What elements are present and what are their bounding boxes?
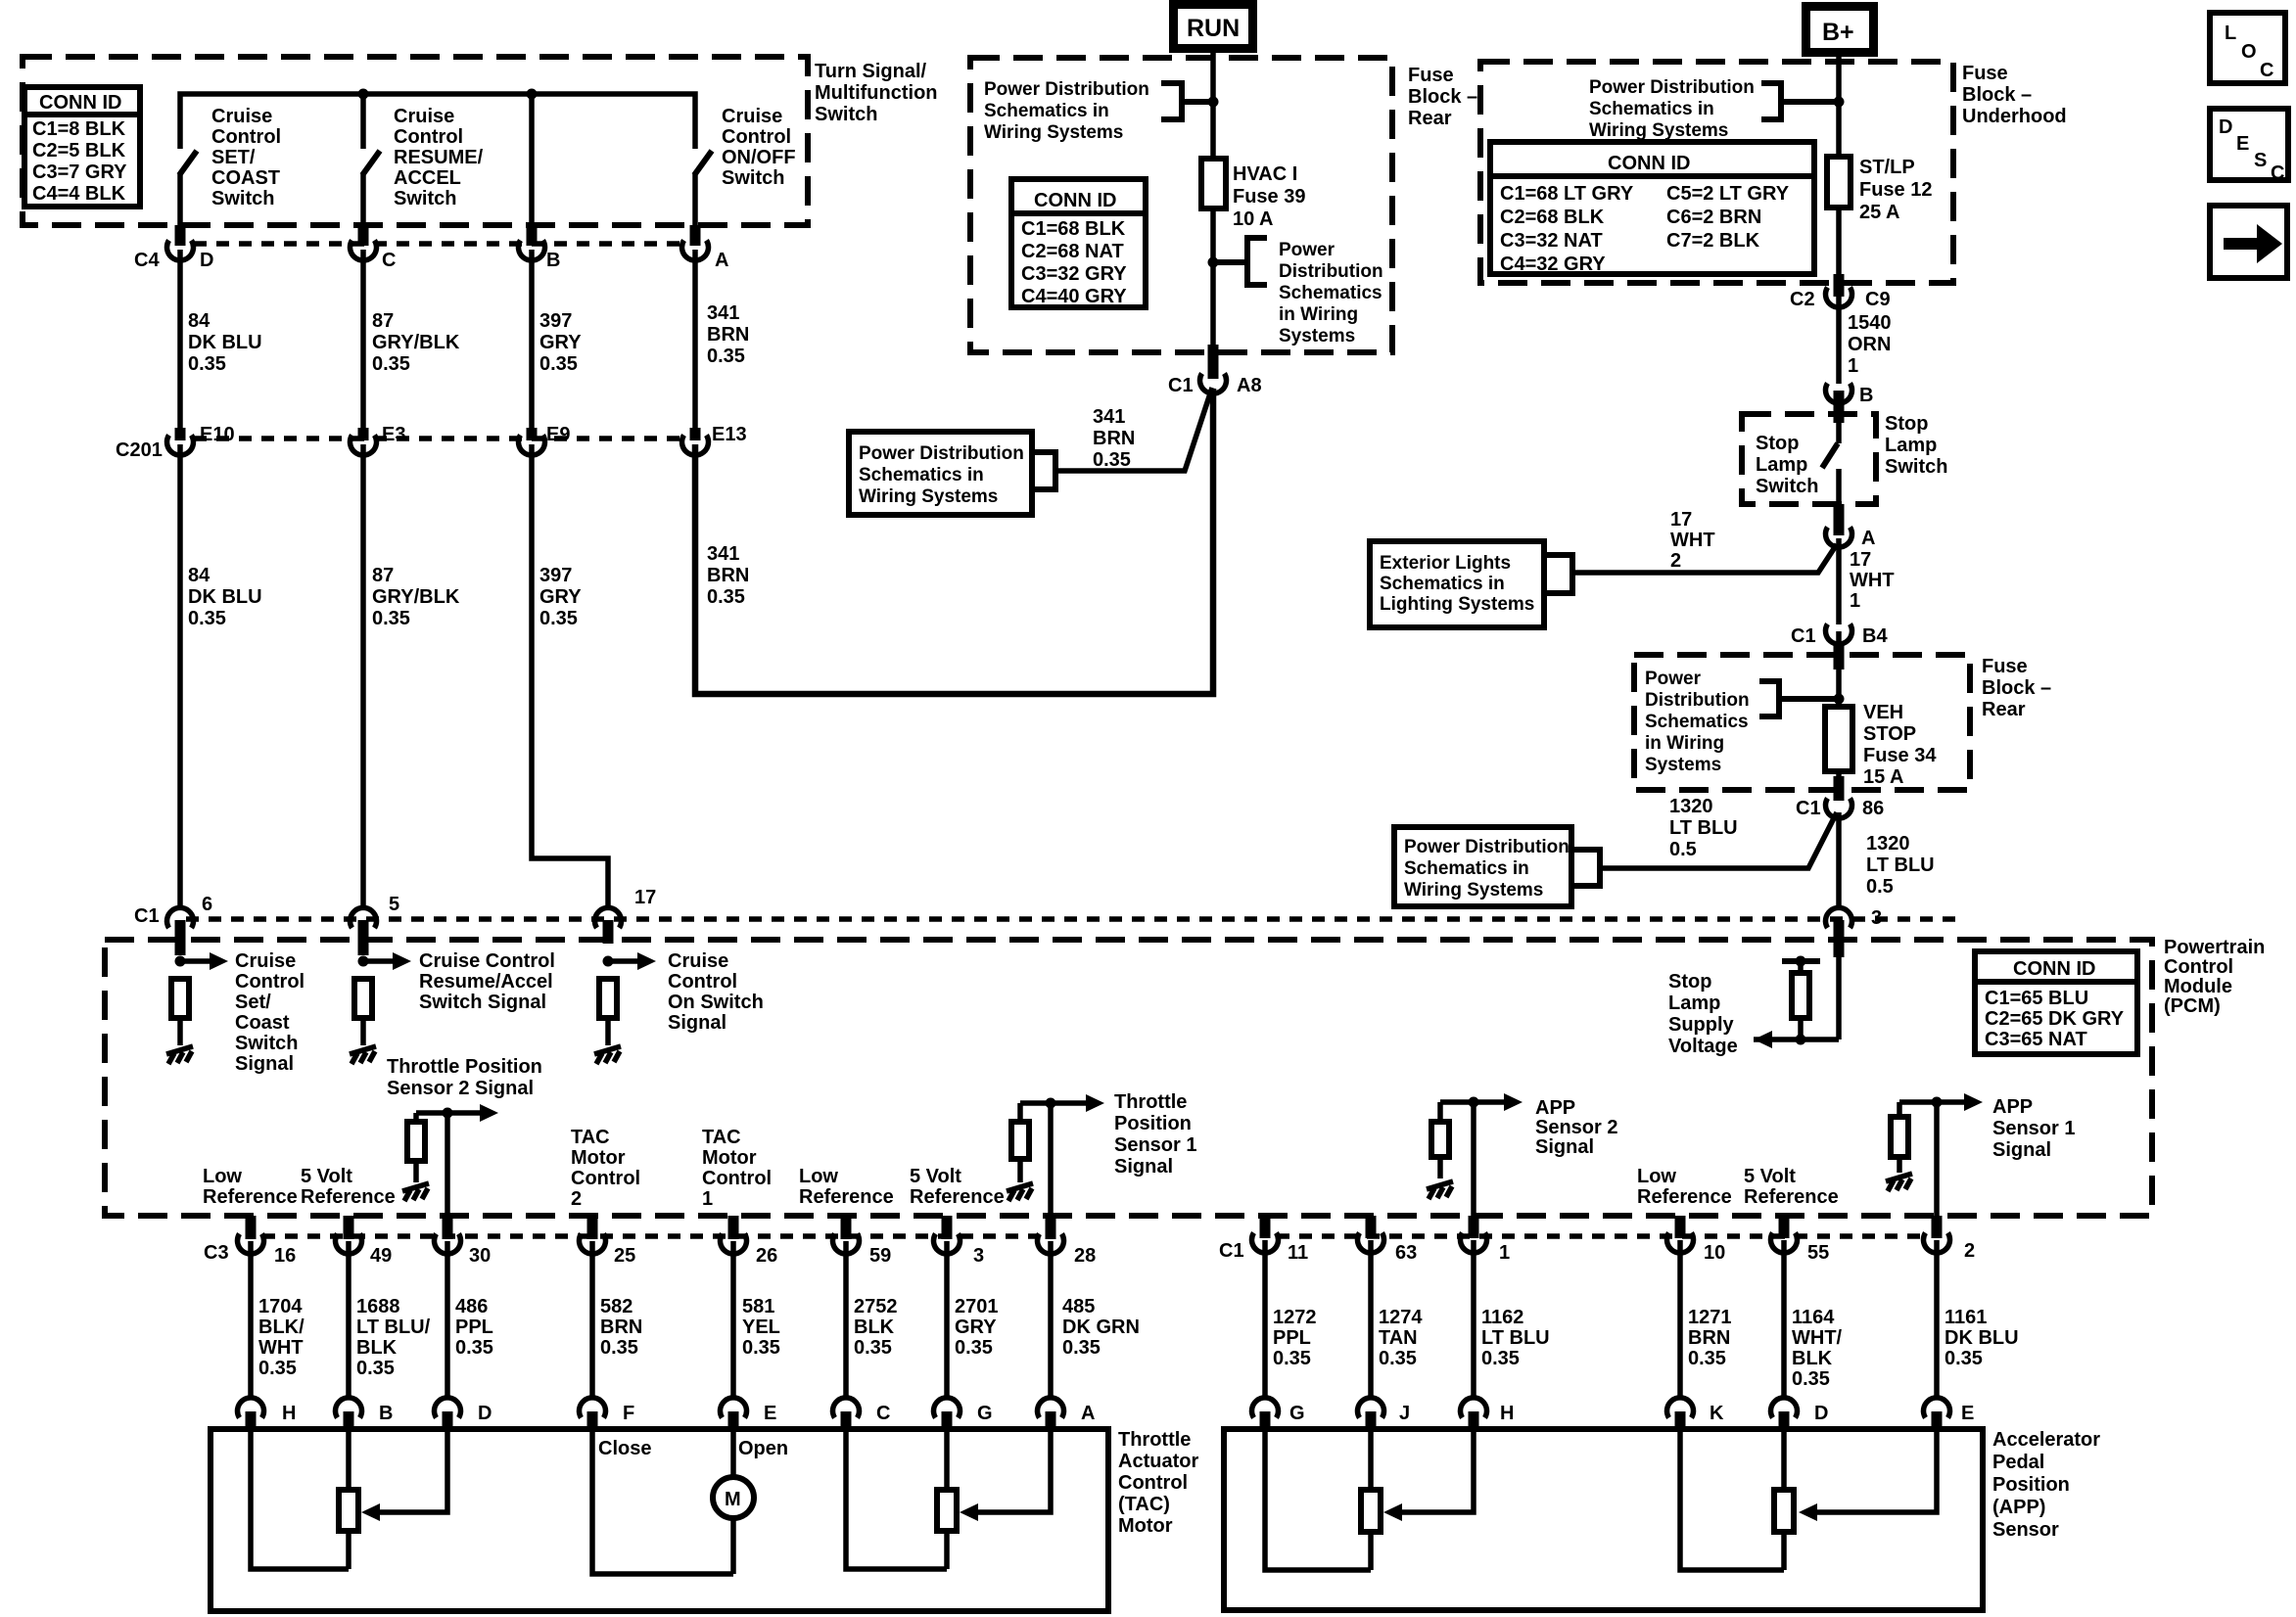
- svg-text:RUN: RUN: [1187, 15, 1240, 42]
- svg-text:D: D: [2219, 116, 2232, 138]
- svg-text:C: C: [2271, 162, 2284, 184]
- svg-text:C201: C201: [116, 439, 163, 461]
- exterior lights schematics box: [1370, 541, 1572, 627]
- wire pin K return loop: [1680, 1429, 1784, 1570]
- motor M1 TAC: [713, 1477, 754, 1518]
- connector C201 pin E9: [519, 424, 571, 455]
- svg-text:VEHSTOPFuse 3415 A: VEHSTOPFuse 3415 A: [1863, 702, 1937, 788]
- powertrain control module dashed box: [105, 937, 2265, 1216]
- svg-text:C1: C1: [1168, 375, 1194, 396]
- svg-text:F: F: [623, 1403, 634, 1424]
- svg-text:C1=8 BLKC2=5 BLKC3=7 GRYC4=4 B: C1=8 BLKC2=5 BLKC3=7 GRYC4=4 BLK: [32, 118, 127, 205]
- svg-text:M: M: [725, 1489, 741, 1510]
- cruise control resume/accel switch signal circuit: [350, 950, 555, 1064]
- connector C1 pin 55: [1771, 1216, 1830, 1264]
- signal arrow resume/accel: [363, 958, 395, 964]
- cruise control on switch signal circuit: [594, 950, 764, 1064]
- svg-text:1271BRN0.35: 1271BRN0.35: [1688, 1307, 1732, 1369]
- svg-text:Cruise ControlResume/AccelSwit: Cruise ControlResume/AccelSwitch Signal: [419, 950, 555, 1013]
- svg-text:Power DistributionSchematics i: Power DistributionSchematics inWiring Sy…: [984, 79, 1149, 143]
- signal arrow TP sensor 1: [1020, 1100, 1088, 1106]
- APP sensor connector pin J: [1358, 1398, 1411, 1431]
- wire RUN to HVAC fuse: [1210, 53, 1216, 159]
- ground G6: [1427, 1181, 1453, 1199]
- wire 87 GRY/BLK upper: [363, 250, 460, 429]
- svg-text:C5=2 LT GRYC6=2 BRNC7=2 BLK: C5=2 LT GRYC6=2 BRNC7=2 BLK: [1666, 183, 1790, 252]
- svg-text:CruiseControlOn SwitchSignal: CruiseControlOn SwitchSignal: [668, 950, 764, 1034]
- svg-text:A: A: [1861, 528, 1875, 549]
- svg-text:B+: B+: [1822, 19, 1854, 46]
- fuse VEH STOP Fuse 34 15 A: [1825, 702, 1937, 788]
- connector C3 pin 26: [720, 1216, 777, 1267]
- connector C1 B4: [1791, 624, 1888, 648]
- svg-text:E: E: [2236, 133, 2249, 155]
- signal arrow APP sensor 1: [1899, 1099, 1966, 1105]
- wire pin3 into PCM: [1836, 957, 1842, 1039]
- svg-text:H: H: [282, 1403, 296, 1424]
- svg-text:CONN ID: CONN ID: [2013, 958, 2095, 980]
- svg-text:1320LT BLU0.5: 1320LT BLU0.5: [1669, 796, 1738, 860]
- wire junction to resistor: [413, 1113, 419, 1122]
- svg-text:28: 28: [1074, 1245, 1096, 1267]
- resistor R4 stop lamp supply: [1792, 973, 1809, 1018]
- node pin30 junction: [443, 1108, 453, 1119]
- svg-text:C4: C4: [134, 250, 160, 271]
- svg-text:D: D: [200, 250, 213, 271]
- svg-text:B: B: [546, 250, 560, 271]
- svg-text:CONN ID: CONN ID: [39, 92, 121, 114]
- svg-text:O: O: [2241, 41, 2257, 63]
- svg-text:1540ORN1: 1540ORN1: [1848, 312, 1892, 377]
- svg-text:C1: C1: [1219, 1240, 1244, 1262]
- connector C201 row dashed line: [194, 436, 685, 441]
- connector C4 pin C: [351, 225, 397, 271]
- wire 1540 ORN 1: [1839, 297, 1892, 384]
- wire pin D to pot: [1781, 1429, 1787, 1490]
- svg-text:APPSensor 1Signal: APPSensor 1Signal: [1992, 1096, 2075, 1161]
- wire pin E wiper: [1813, 1429, 1937, 1512]
- wire branch col2: [360, 94, 366, 149]
- svg-text:86: 86: [1862, 798, 1884, 819]
- svg-text:5: 5: [389, 894, 399, 915]
- TAC potentiometer 2: [846, 1429, 957, 1569]
- svg-text:C1=68 BLKC2=68 NATC3=32 GRYC4=: C1=68 BLKC2=68 NATC3=32 GRYC4=40 GRY: [1021, 218, 1127, 307]
- CONN ID table (fuse block underhood): [1490, 142, 1814, 275]
- svg-text:StopLampSwitch: StopLampSwitch: [1885, 413, 1947, 478]
- svg-text:55: 55: [1807, 1242, 1829, 1264]
- potentiometer VR4 APP1: [1774, 1490, 1794, 1532]
- node pin6 junction: [175, 956, 186, 967]
- connector C1 pin A8: [1168, 345, 1262, 396]
- svg-text:CruiseControlSet/CoastSwitchSi: CruiseControlSet/CoastSwitchSignal: [235, 950, 305, 1075]
- wire resistor to ground: [413, 1161, 419, 1182]
- wire 1161 DK BLU 0.35: [1937, 1240, 2019, 1397]
- svg-text:6: 6: [202, 894, 212, 915]
- wire B into switch: [1834, 391, 1845, 423]
- wire resistor to ground: [1017, 1159, 1023, 1182]
- stop lamp switch blade: [1822, 443, 1838, 468]
- wire pot to loop: [346, 1531, 351, 1569]
- svg-text:C: C: [876, 1403, 890, 1424]
- wire HVAC fuse to connector C1 A8: [1210, 208, 1216, 345]
- wire 17 WHT 1: [1839, 538, 1895, 624]
- wire 84 DK BLU upper: [180, 250, 262, 429]
- svg-text:G: G: [1289, 1403, 1305, 1424]
- RUN power feed box: [1169, 0, 1257, 53]
- svg-text:C3: C3: [204, 1242, 229, 1264]
- switch RESUME/ACCEL blade: [362, 151, 380, 175]
- node B+ tap: [1834, 97, 1845, 108]
- svg-text:J: J: [1399, 1403, 1410, 1424]
- svg-text:PowerDistributionSchematicsin: PowerDistributionSchematicsin WiringSyst…: [1645, 669, 1750, 775]
- svg-text:Turn Signal/MultifunctionSwitc: Turn Signal/MultifunctionSwitch: [815, 61, 938, 125]
- svg-text:1272PPL0.35: 1272PPL0.35: [1273, 1307, 1317, 1369]
- svg-text:HVAC IFuse 3910 A: HVAC IFuse 3910 A: [1233, 163, 1305, 230]
- svg-text:C1: C1: [134, 905, 160, 927]
- svg-text:26: 26: [756, 1245, 777, 1267]
- CONN ID table (PCM): [1975, 951, 2137, 1054]
- resistor R5 TP sensor 2 pull: [407, 1122, 425, 1161]
- svg-text:C: C: [382, 250, 396, 271]
- node feed junction: [1796, 1035, 1806, 1045]
- svg-text:16: 16: [274, 1245, 296, 1267]
- connector C3 pin 25: [580, 1216, 636, 1267]
- resistor R3 on-switch pull: [599, 979, 617, 1018]
- wire 1164 WHT/BLK 0.35: [1784, 1240, 1843, 1397]
- svg-text:5 VoltReference: 5 VoltReference: [1744, 1166, 1839, 1208]
- stop lamp supply voltage circuit: [1668, 956, 1839, 1058]
- APP pot 2 wiper from pin E: [1799, 1429, 1937, 1521]
- connector C1 (APP) row dashed line: [1277, 1233, 1925, 1239]
- svg-text:D: D: [478, 1403, 492, 1424]
- connector C201 pin E10: [116, 424, 235, 461]
- TAC motor connector pin F: [580, 1398, 635, 1431]
- svg-text:1: 1: [1499, 1242, 1510, 1264]
- connector C3 pin 28: [1038, 1216, 1097, 1267]
- wire pin H return loop: [251, 1429, 349, 1569]
- svg-text:Power DistributionSchematics i: Power DistributionSchematics inWiring Sy…: [859, 443, 1024, 507]
- fuse block rear dashed box (top): [970, 58, 1477, 352]
- wire 1320 LT BLU 0.5 branch to power distribution: [1600, 796, 1837, 868]
- PCM connector C1 row dashed line: [186, 916, 1956, 922]
- svg-text:ThrottleActuatorControl(TAC)Mo: ThrottleActuatorControl(TAC)Motor: [1118, 1429, 1198, 1537]
- resistor R7 APP sensor 2 pull: [1431, 1122, 1449, 1157]
- APP sensor connector pin E: [1924, 1398, 1975, 1431]
- TAC motor connector pin A: [1038, 1398, 1096, 1431]
- svg-text:TACMotorControl1: TACMotorControl1: [702, 1127, 772, 1210]
- wire 486 PPL 0.35: [447, 1241, 493, 1397]
- svg-text:TACMotorControl2: TACMotorControl2: [571, 1127, 640, 1210]
- CONN ID table (fuse block rear): [1011, 179, 1146, 307]
- fuse block underhood dashed box: [1480, 62, 2067, 283]
- wire stop lamp supply feed: [1754, 1037, 1839, 1042]
- wire 1271 BRN 0.35: [1680, 1240, 1732, 1397]
- ground G2: [350, 1046, 376, 1064]
- svg-text:Exterior LightsSchematics inLi: Exterior LightsSchematics inLighting Sys…: [1380, 553, 1534, 615]
- svg-text:1162LT BLU0.35: 1162LT BLU0.35: [1481, 1307, 1550, 1369]
- wire 2752 BLK 0.35: [846, 1241, 898, 1397]
- svg-text:3: 3: [973, 1245, 984, 1267]
- node veh stop tap: [1834, 694, 1845, 705]
- wire pin A wiper: [974, 1429, 1051, 1512]
- svg-text:C: C: [2260, 60, 2273, 81]
- connector A (stop lamp switch out): [1826, 528, 1876, 550]
- wire junction to resistor: [1017, 1103, 1023, 1122]
- ground G4: [402, 1183, 429, 1201]
- wire 1162 LT BLU 0.35: [1474, 1240, 1550, 1397]
- svg-text:E13: E13: [712, 424, 747, 445]
- ground G7: [1886, 1174, 1912, 1191]
- connector C1 86: [1796, 771, 1884, 819]
- svg-text:1688LT BLU/BLK0.35: 1688LT BLU/BLK0.35: [356, 1296, 431, 1379]
- fuse ST/LP Fuse 12 25 A: [1827, 157, 1932, 223]
- wire junction to resistor: [1897, 1102, 1902, 1117]
- APP sensor 1 signal circuit: [1886, 1093, 2075, 1218]
- power distribution schematics box (1320 LT BLU): [1394, 827, 1600, 906]
- svg-text:CruiseControlRESUME/ACCELSwitc: CruiseControlRESUME/ACCELSwitch: [394, 106, 484, 209]
- svg-text:S: S: [2254, 150, 2267, 171]
- wire ST/LP fuse to C2/C9: [1836, 208, 1842, 293]
- svg-text:A: A: [1081, 1403, 1095, 1424]
- svg-text:CruiseControlSET/COASTSwitch: CruiseControlSET/COASTSwitch: [211, 106, 281, 209]
- connector C1 pin 10: [1667, 1216, 1726, 1264]
- potentiometer VR3 APP2: [1361, 1490, 1381, 1532]
- connector C1 pin 11: [1252, 1216, 1309, 1264]
- wire 84 DK BLU lower: [180, 444, 262, 908]
- wire pin2 into PCM: [1934, 1102, 1940, 1218]
- svg-text:CruiseControlON/OFFSwitch: CruiseControlON/OFFSwitch: [722, 106, 796, 189]
- svg-text:E9: E9: [546, 424, 570, 445]
- arrow stop lamp supply voltage: [1754, 1031, 1772, 1048]
- wire 341 BRN lower routed to HVAC fuse output: [695, 389, 1213, 694]
- svg-text:581YEL0.35: 581YEL0.35: [742, 1296, 780, 1359]
- wire 1320 LT BLU 0.5 to PCM pin 3: [1839, 812, 1935, 908]
- resistor R2 resume/accel pull: [354, 979, 372, 1018]
- wire pin F return loop: [592, 1429, 733, 1574]
- svg-text:3: 3: [1871, 907, 1882, 929]
- svg-text:87GRY/BLK0.35: 87GRY/BLK0.35: [372, 565, 460, 629]
- svg-text:2: 2: [1964, 1240, 1975, 1262]
- svg-text:E10: E10: [200, 424, 235, 445]
- TAC pot 1 wiper from pin D: [361, 1429, 447, 1521]
- wire 1688 LT BLU/BLK 0.35: [349, 1241, 431, 1397]
- svg-text:PowerDistributionSchematicsin: PowerDistributionSchematicsin WiringSyst…: [1279, 240, 1383, 346]
- svg-text:B: B: [379, 1403, 393, 1424]
- svg-text:C2: C2: [1790, 289, 1815, 310]
- svg-text:341BRN0.35: 341BRN0.35: [707, 543, 749, 608]
- wire pin H wiper: [1398, 1429, 1474, 1512]
- node bus-col2: [358, 89, 369, 100]
- connector C4 pin B: [519, 225, 561, 271]
- node pin1 junction: [1469, 1097, 1479, 1108]
- svg-text:397GRY0.35: 397GRY0.35: [539, 310, 582, 375]
- wire 397 GRY lower with jog: [532, 444, 608, 908]
- connector C3 pin 59: [833, 1216, 892, 1267]
- svg-text:Power DistributionSchematics i: Power DistributionSchematics inWiring Sy…: [1589, 77, 1755, 141]
- wire switch to connector A: [1836, 469, 1842, 530]
- wire below SET/COAST switch: [177, 174, 183, 225]
- svg-text:87GRY/BLK0.35: 87GRY/BLK0.35: [372, 310, 460, 375]
- APP sensor connector pin D: [1771, 1398, 1829, 1431]
- svg-text:1704BLK/WHT0.35: 1704BLK/WHT0.35: [258, 1296, 305, 1379]
- wire resistor to ground: [1897, 1157, 1902, 1173]
- node bus-col3: [527, 89, 538, 100]
- svg-text:49: 49: [370, 1245, 392, 1267]
- power distribution schematics box (341 BRN): [849, 432, 1055, 515]
- svg-text:PowertrainControlModule(PCM): PowertrainControlModule(PCM): [2164, 937, 2265, 1017]
- svg-text:17: 17: [634, 887, 656, 908]
- throttle actuator control (TAC) motor box: [211, 1429, 1198, 1611]
- wire resistor to ground: [605, 1018, 611, 1045]
- APP sensor connector pin H: [1461, 1398, 1515, 1431]
- TAC motor connector pin G: [934, 1398, 993, 1431]
- wire 1272 PPL 0.35: [1265, 1240, 1317, 1397]
- wire resistor to ground: [1437, 1157, 1443, 1178]
- wiper arrow VR3: [1383, 1503, 1402, 1521]
- svg-text:FuseBlock –Underhood: FuseBlock –Underhood: [1962, 63, 2067, 127]
- APP sensor 2 signal circuit: [1427, 1093, 1617, 1218]
- ground G3: [594, 1046, 621, 1064]
- svg-text:5 VoltReference: 5 VoltReference: [910, 1166, 1005, 1208]
- connector C4 pin D: [134, 225, 213, 271]
- connector C3 row dashed line: [262, 1233, 1038, 1239]
- svg-text:ST/LPFuse 1225 A: ST/LPFuse 1225 A: [1859, 157, 1932, 223]
- potentiometer VR2 TPS: [937, 1490, 957, 1531]
- wire 397 GRY upper: [532, 250, 582, 429]
- connector C4 pin A: [682, 225, 729, 271]
- svg-text:1320LT BLU0.5: 1320LT BLU0.5: [1866, 833, 1935, 898]
- TAC motor connector pin E: [720, 1398, 776, 1431]
- wire pin1 into PCM: [1471, 1102, 1476, 1218]
- svg-text:17WHT1: 17WHT1: [1850, 549, 1895, 612]
- APP potentiometer 2: [1680, 1429, 1794, 1570]
- wire pin30 into PCM: [445, 1113, 450, 1218]
- wire pin G return loop: [1265, 1429, 1371, 1570]
- svg-text:1164WHT/BLK0.35: 1164WHT/BLK0.35: [1792, 1307, 1843, 1390]
- wiper arrow VR4: [1799, 1503, 1817, 1521]
- ground G5: [1007, 1183, 1033, 1201]
- resistor R6 TP sensor 1 pull: [1011, 1122, 1029, 1159]
- wire pin G to pot: [944, 1429, 950, 1490]
- node lower tap: [1208, 257, 1219, 268]
- CONN ID table (turn signal switch): [24, 87, 140, 207]
- svg-text:B4: B4: [1862, 625, 1888, 647]
- wire bus connecting switches: [180, 94, 695, 149]
- svg-text:C9: C9: [1865, 289, 1891, 310]
- signal arrow on-switch: [608, 958, 639, 964]
- ground G1: [166, 1046, 193, 1064]
- connector C201 pin E3: [351, 424, 406, 455]
- APP pot 1 wiper from pin H: [1383, 1429, 1474, 1521]
- wire pot to loop: [1781, 1532, 1787, 1570]
- TAC motor connector pin B: [336, 1398, 394, 1431]
- connector C1 pin 1: [1461, 1216, 1511, 1264]
- svg-text:5 VoltReference: 5 VoltReference: [301, 1166, 396, 1208]
- wire pin E to motor: [730, 1429, 736, 1477]
- potentiometer VR1 TPS: [339, 1490, 358, 1531]
- wire pin28 into PCM: [1048, 1103, 1054, 1218]
- internal rail bar: [1782, 958, 1820, 964]
- svg-text:ThrottlePositionSensor 1Signal: ThrottlePositionSensor 1Signal: [1114, 1091, 1196, 1178]
- svg-text:25: 25: [614, 1245, 635, 1267]
- svg-text:E: E: [1961, 1403, 1974, 1424]
- svg-text:2701GRY0.35: 2701GRY0.35: [955, 1296, 999, 1359]
- svg-text:CONN ID: CONN ID: [1608, 153, 1690, 174]
- connector C1 pin 6: [134, 894, 212, 955]
- svg-text:A: A: [715, 250, 728, 271]
- svg-text:Open: Open: [738, 1438, 788, 1459]
- throttle position sensor 2 signal circuit: [387, 1056, 542, 1218]
- svg-text:H: H: [1500, 1403, 1514, 1424]
- wire pin B to pot: [346, 1429, 351, 1490]
- svg-text:2752BLK0.35: 2752BLK0.35: [854, 1296, 898, 1359]
- TAC motor connector pin H: [238, 1398, 297, 1431]
- svg-text:B: B: [1859, 385, 1873, 406]
- wire 17 WHT 2 branch to exterior lights: [1572, 509, 1837, 573]
- svg-text:485DK GRN0.35: 485DK GRN0.35: [1062, 1296, 1140, 1359]
- wire resistor to feed: [1798, 1018, 1804, 1039]
- svg-text:84DK BLU0.35: 84DK BLU0.35: [188, 310, 262, 375]
- TAC motor connector pin D: [435, 1398, 492, 1431]
- svg-text:582BRN0.35: 582BRN0.35: [600, 1296, 642, 1359]
- svg-text:APPSensor 2Signal: APPSensor 2Signal: [1535, 1097, 1617, 1158]
- connector C4 row dashed line: [194, 241, 685, 247]
- svg-text:E3: E3: [382, 424, 405, 445]
- svg-text:30: 30: [469, 1245, 491, 1267]
- wire junction to resistor: [1437, 1102, 1443, 1122]
- wire B+ to ST/LP fuse: [1836, 57, 1842, 157]
- wire pin D wiper: [376, 1429, 447, 1512]
- wire 341 BRN upper: [695, 250, 749, 429]
- svg-text:LowReference: LowReference: [799, 1166, 894, 1208]
- svg-text:1161DK BLU0.35: 1161DK BLU0.35: [1945, 1307, 2019, 1369]
- wire pin C return loop: [846, 1429, 947, 1569]
- connector B (stop lamp switch): [1826, 384, 1874, 407]
- node pin17 junction: [603, 956, 614, 967]
- svg-text:G: G: [977, 1403, 993, 1424]
- wire resistor to ground: [177, 1018, 183, 1045]
- connector C2 C9: [1790, 274, 1891, 310]
- connector C1 pin 5: [351, 894, 400, 955]
- wire 582 BRN 0.35: [592, 1241, 642, 1397]
- svg-text:486PPL0.35: 486PPL0.35: [455, 1296, 493, 1359]
- wire below ON/OFF switch: [692, 174, 698, 225]
- cruise control set/coast switch signal circuit: [166, 950, 305, 1075]
- B+ power feed box: [1802, 2, 1878, 57]
- svg-text:LowReference: LowReference: [1637, 1166, 1732, 1208]
- fuse block rear dashed box (veh stop): [1634, 655, 2051, 790]
- stop lamp switch dashed box: [1742, 413, 1947, 504]
- svg-text:D: D: [1814, 1403, 1828, 1424]
- node pin2 junction: [1932, 1097, 1943, 1108]
- wire pot to loop: [944, 1531, 950, 1569]
- power distribution schematics reference (veh stop): [1645, 669, 1839, 775]
- svg-text:E: E: [764, 1403, 776, 1424]
- svg-text:1274TAN0.35: 1274TAN0.35: [1379, 1307, 1423, 1369]
- wiper arrow VR2: [960, 1503, 978, 1521]
- APP potentiometer 1: [1265, 1429, 1381, 1570]
- svg-text:341BRN0.35: 341BRN0.35: [1093, 406, 1135, 471]
- svg-text:Throttle PositionSensor 2 Sign: Throttle PositionSensor 2 Signal: [387, 1056, 542, 1099]
- svg-text:341BRN0.35: 341BRN0.35: [707, 302, 749, 367]
- wire 2701 GRY 0.35: [947, 1241, 999, 1397]
- signal arrow set/coast: [180, 958, 211, 964]
- power distribution schematics reference (lower tap): [1213, 238, 1383, 346]
- svg-text:84DK BLU0.35: 84DK BLU0.35: [188, 565, 262, 629]
- LOC legend box: [2210, 13, 2285, 83]
- wire 341 BRN branch to power distribution: [1055, 388, 1212, 471]
- wire 1704 BLK/WHT 0.35: [251, 1241, 305, 1397]
